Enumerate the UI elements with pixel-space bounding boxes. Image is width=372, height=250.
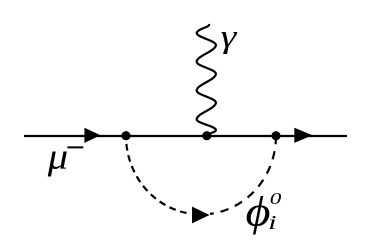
arrow on incoming muon line [84,128,100,143]
node: left vertex dot [121,131,130,140]
dashed scalar loop phi, right half [210,136,276,214]
svg-text:ϕ: ϕ [246,187,271,235]
svg-text:i: i [268,211,276,234]
dashed scalar loop phi, left half [126,136,187,213]
svg-text:0: 0 [270,190,282,208]
wire: incoming muon line [24,135,126,137]
svg-text:μ: μ [47,137,68,177]
node: right vertex dot [271,131,280,140]
svg-text:γ: γ [221,19,238,55]
arrow on outgoing muon line [294,128,312,143]
node: photon vertex dot [202,131,211,140]
wire: outgoing muon line [276,135,347,137]
arrow on dashed scalar loop [192,207,210,224]
wire: middle muon line [126,135,276,137]
photon wavy line gamma [197,25,216,135]
